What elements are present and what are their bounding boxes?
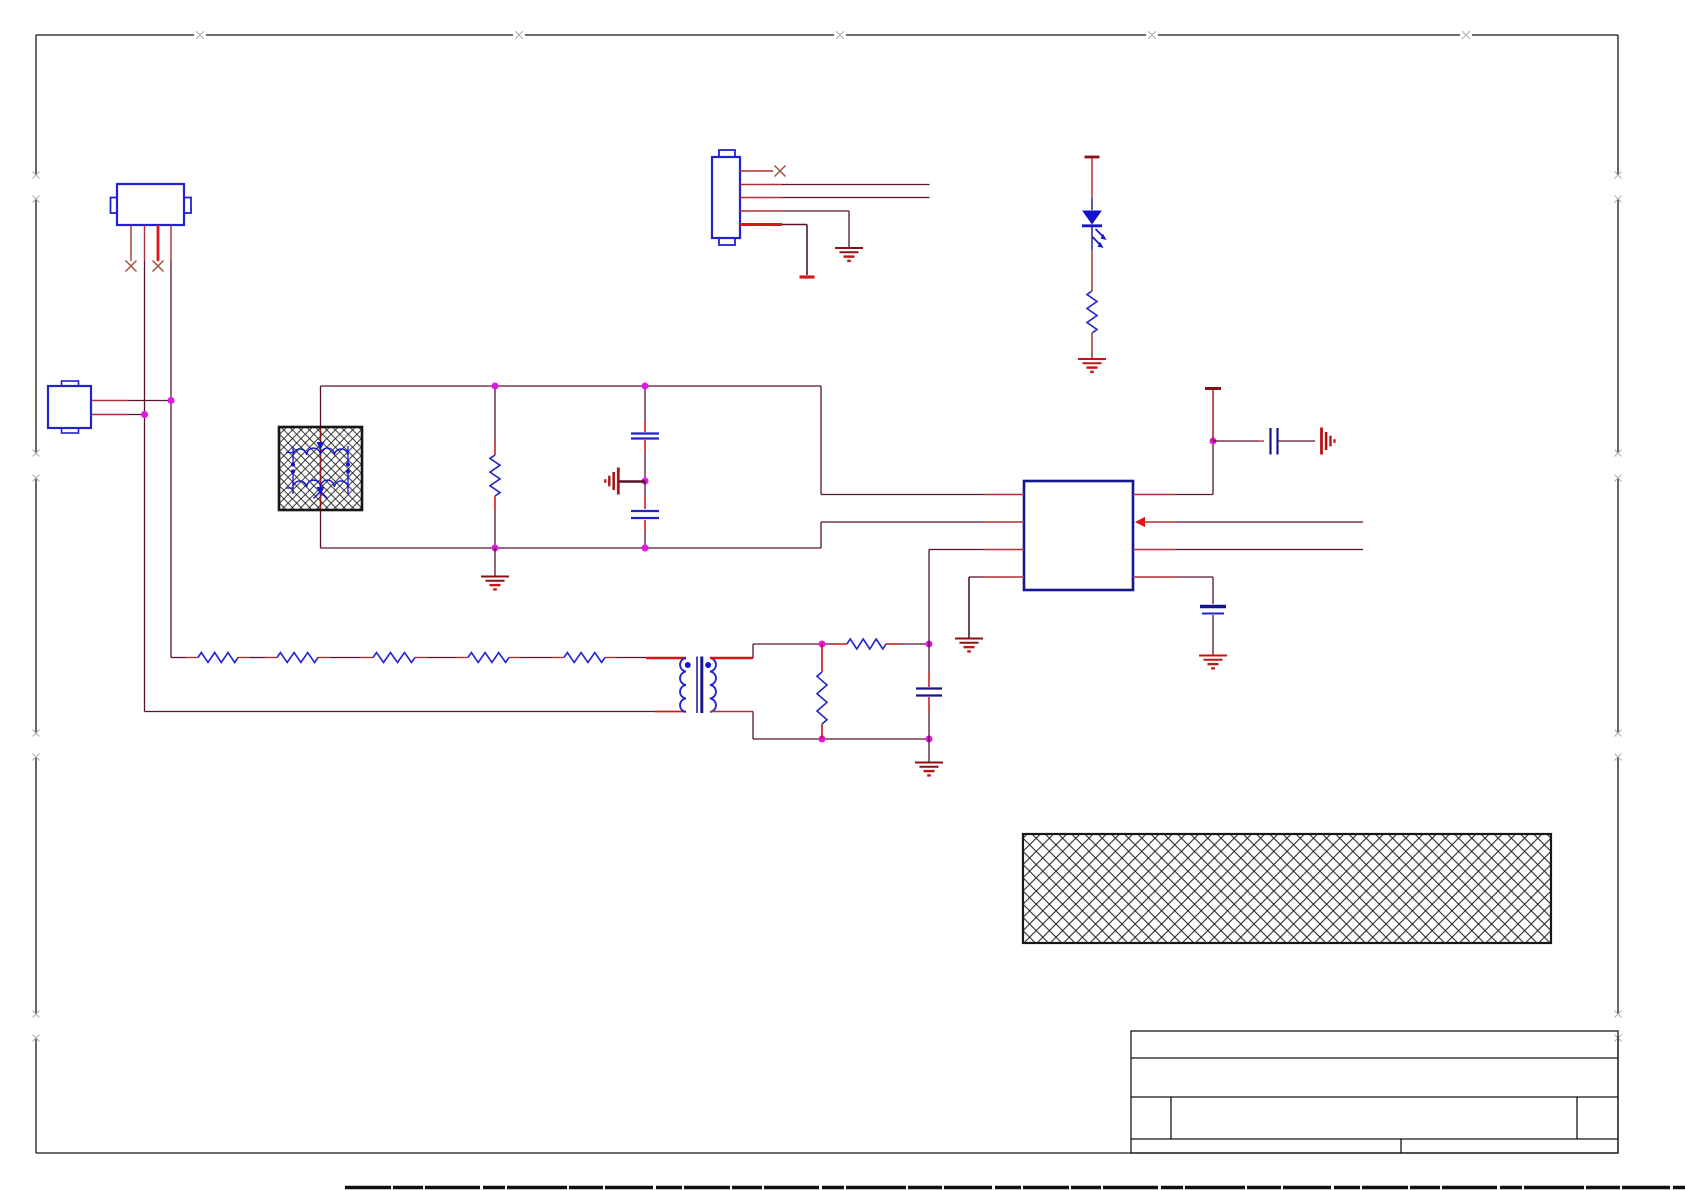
resistor R9 xyxy=(490,455,500,496)
wire R8 to ground xyxy=(1091,333,1093,358)
wire LED to R8 xyxy=(1091,227,1093,250)
resistor R3 xyxy=(373,653,415,663)
R9 lead top xyxy=(494,386,496,441)
wire U1 pin4R to C6 xyxy=(1176,576,1213,578)
ground U1 analog xyxy=(955,638,983,640)
C5 lead bottom xyxy=(928,697,930,712)
J3 pin 1 xyxy=(740,170,773,172)
resistor R6 xyxy=(847,639,886,649)
cropped bottom sheet line xyxy=(345,1186,1685,1189)
U1 right pin 2 xyxy=(1145,521,1176,523)
R7 lead top xyxy=(821,644,823,672)
wire U1 pin3 to C5 node xyxy=(929,549,983,551)
J3 pin 2 xyxy=(740,184,782,186)
wire secondary bottom rail xyxy=(753,738,929,740)
ground LED xyxy=(1078,358,1106,360)
wire to T1 primary bottom xyxy=(655,711,686,713)
wire secondary top rail xyxy=(753,643,833,645)
U1 right pin 4 xyxy=(1133,576,1176,578)
wire J3.4 to ground xyxy=(782,210,849,212)
wire to T1 primary top xyxy=(646,657,686,659)
sheet border left edge xyxy=(35,35,37,175)
wire bottom run xyxy=(145,711,656,713)
wire left rail drop bottom xyxy=(320,509,322,548)
J1 pin 4 xyxy=(170,225,172,261)
junction secondary top right xyxy=(926,641,933,648)
wire top rail to U1 pin1 xyxy=(820,386,822,495)
resistor R1 xyxy=(198,653,238,663)
capacitor C4 xyxy=(631,510,659,512)
no-connect X on J1 pin 3 xyxy=(153,261,164,272)
ground C6 xyxy=(1199,655,1227,657)
R7 lead bottom xyxy=(821,724,823,739)
capacitor C3 xyxy=(631,432,659,434)
wire chain segment c xyxy=(318,657,330,659)
wire C5 node to U1 pin xyxy=(928,550,930,645)
hatched note area xyxy=(1023,834,1551,943)
connector J2 xyxy=(62,381,79,387)
J3 pin 3 xyxy=(740,197,782,199)
wire U1 out B xyxy=(1176,549,1363,551)
wire J3.3 xyxy=(782,197,930,199)
border zone tick marks xyxy=(196,31,204,39)
C3 lead bottom xyxy=(644,440,646,453)
wire R6 to C5 node xyxy=(886,643,900,645)
wire J3.5 xyxy=(782,224,807,226)
J3 pin 4 xyxy=(740,210,782,212)
ground J3 xyxy=(835,247,863,249)
wire bar to LED xyxy=(1091,158,1093,198)
capacitor C5 xyxy=(916,687,942,689)
U1 right pin 2 arrow xyxy=(1135,517,1145,527)
title block xyxy=(1131,1031,1618,1153)
junction secondary bottom right xyxy=(926,736,933,743)
connector J1 xyxy=(111,198,118,214)
filter FL1 shielded box xyxy=(279,427,362,510)
wire U1 out A xyxy=(1176,521,1363,523)
R9 lead bottom xyxy=(494,496,496,510)
transformer T1 xyxy=(680,658,686,712)
wire J3.2 xyxy=(782,184,930,186)
wire through filter xyxy=(320,427,322,509)
C4 lead bottom xyxy=(644,520,646,532)
power bar LED xyxy=(1085,156,1100,159)
junction secondary bottom left xyxy=(819,736,826,743)
junction secondary top left xyxy=(819,641,826,648)
junction top rail C3 xyxy=(642,383,649,390)
sheet border top edge xyxy=(36,34,194,36)
U1 right pin 3 xyxy=(1133,549,1176,551)
chassis ground right xyxy=(1320,428,1323,455)
junction bottom rail C4 xyxy=(642,545,649,552)
J1 pin 1 xyxy=(130,225,132,261)
J1 pin 2 xyxy=(144,225,146,261)
IC U1 xyxy=(1024,481,1133,590)
U1 left pin 4 xyxy=(983,576,1024,578)
resistor R5 xyxy=(564,653,605,663)
C6 lead bottom xyxy=(1212,615,1214,655)
wire chain segment a xyxy=(171,657,186,659)
ground filter xyxy=(481,576,509,578)
capacitor C6 xyxy=(1200,605,1226,608)
power bar J3 xyxy=(800,275,815,278)
wire chain segment b xyxy=(238,657,250,659)
wire left rail drop top xyxy=(320,386,322,427)
chassis ground mid xyxy=(617,468,620,495)
LED D1 xyxy=(1082,211,1102,225)
wire U1 pin1 to VCC node xyxy=(1176,494,1213,496)
wire J1.2 down xyxy=(144,261,146,712)
J2 pin 1 xyxy=(91,400,128,402)
wire bottom rail to U1 pin2 xyxy=(820,522,822,548)
resistor R7 xyxy=(817,672,827,724)
C3 lead top xyxy=(644,386,646,421)
resistor R2 xyxy=(277,653,318,663)
filter FL1 windings xyxy=(293,448,348,455)
junction top rail R9 xyxy=(492,383,499,390)
wire T1 secondary top xyxy=(710,657,753,659)
ground secondary xyxy=(915,762,943,764)
J3 pin 5 xyxy=(740,223,782,226)
wire chain segment d xyxy=(415,657,427,659)
C4 lead top xyxy=(644,481,646,497)
capacitor C7 xyxy=(1269,428,1271,455)
connector J3 xyxy=(719,150,735,157)
wire chain segment f xyxy=(605,657,617,659)
wire U1 pin4 to ground xyxy=(969,576,983,578)
no-connect X on J3 pin 1 xyxy=(775,166,786,177)
no-connect X on J1 pin 1 xyxy=(126,261,137,272)
U1 left pin 3 xyxy=(983,549,1024,551)
resistor R4 xyxy=(468,653,509,663)
wire J2.1 to node xyxy=(128,400,171,402)
junction VCC node xyxy=(1210,438,1217,445)
U1 right pin 1 xyxy=(1133,494,1176,496)
junction J2.1 xyxy=(168,397,175,404)
wire VCC node to C7 xyxy=(1213,440,1258,442)
junction C3 C4 mid xyxy=(642,478,649,485)
wire chain segment e xyxy=(509,657,521,659)
sheet border right edge xyxy=(1617,35,1619,175)
wire R9 node to ground xyxy=(494,548,496,576)
wire J1.4 down xyxy=(170,261,172,658)
wire VCC stub xyxy=(1212,390,1214,441)
sheet border bottom edge xyxy=(36,1152,1618,1154)
wire J2.2 to node xyxy=(128,414,145,416)
power bar VCC xyxy=(1205,387,1221,390)
junction bottom rail R9 xyxy=(492,545,499,552)
wire to chassis ground xyxy=(619,480,645,483)
wire T1 secondary bottom xyxy=(710,711,753,713)
wire top rail xyxy=(321,385,822,387)
U1 left pin 1 xyxy=(983,494,1024,496)
wire C7 to chassis xyxy=(1278,440,1316,442)
wire bottom rail xyxy=(321,547,822,549)
C5 lead top xyxy=(928,644,930,672)
J2 pin 2 xyxy=(91,414,128,416)
J1 pin 3 xyxy=(157,225,160,261)
resistor R8 xyxy=(1087,291,1097,333)
U1 left pin 2 xyxy=(983,521,1024,523)
wire C5 node to ground xyxy=(928,739,930,762)
junction J2.2 xyxy=(141,411,148,418)
